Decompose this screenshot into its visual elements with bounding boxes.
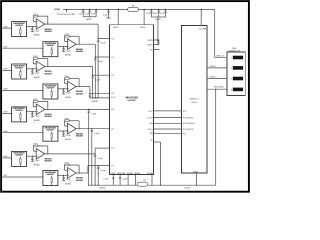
current-sense amp U7 MAX4080 block [12,151,27,166]
svg-text:DGND: DGND [193,171,199,173]
op-amp A5 buffer [36,104,45,115]
wire AVDD to ADC [117,9,119,11]
resistor internal gain resistor of U5 [19,112,21,114]
svg-text:0.1μF: 0.1μF [66,135,72,137]
svg-text:DVDD: DVDD [140,27,146,29]
op-amp A2 buffer [68,39,77,50]
wire AGND return for upper filter caps [90,97,110,99]
wire CH4 filter cap ground leg [88,114,90,185]
wire CH2 filter cap ground leg [92,80,94,98]
svg-text:U401: U401 [192,102,198,104]
capacitor C2a 0.1uF bypass at op-amp input [63,46,64,47]
wire feedback loop of op-amp A7 [38,145,48,147]
svg-text:0.1μF: 0.1μF [34,116,40,118]
svg-text:0.1μF: 0.1μF [98,61,104,63]
svg-text:0.1μF: 0.1μF [66,50,72,52]
wire CH5 input from left edge [2,132,43,134]
wire CH7 filter cap ground leg [97,170,99,185]
svg-text:RL0: RL0 [183,111,186,113]
current-sense amp U1 MAX4080 block [12,22,27,37]
resistor internal gain resistor of U1 [19,27,21,29]
svg-text:USB: USB [232,48,237,50]
resistor internal gain resistor of U2 [51,47,53,49]
wire CH1 input from left edge [2,47,43,49]
wire DGND pin of ADC to ground rail [151,174,153,185]
svg-text:CONNECTOR: CONNECTOR [228,51,241,53]
wire feedback loop of op-amp A2 [69,35,79,37]
inductor FB2 ferrite bead between AGND and DGND [137,182,147,186]
wire AGND pins of ADC to ground rail [127,174,129,185]
wire CH4 op-amp output to ADC input [45,108,110,110]
wire CH0 op-amp output to ADC input [45,23,98,25]
wire DVDD to ADC [143,9,145,11]
svg-text:USB D+: USB D+ [210,77,218,79]
svg-text:DGND: DGND [155,19,161,21]
wire CH0 filter cap ground leg [97,43,99,98]
resistor R601 feedback of op-amp [65,120,70,122]
wire U2 output to op-amp noninverting input [58,46,68,48]
wire CH1 filter cap ground leg [94,62,96,98]
svg-text:4.7μF: 4.7μF [103,178,109,180]
pin 1 pad of USB connector [233,56,243,60]
wire feedback loop of op-amp A8 [69,164,79,166]
capacitor C17 4.7uF on REF pin [112,174,114,177]
capacitor C6a 0.1uF bypass at op-amp input [63,130,64,131]
wire SPI bus SCLK [154,128,182,130]
svg-text:+5V USB: +5V USB [198,28,207,30]
svg-text:1: 1 [231,58,232,60]
wire CH3 filter cap ground leg [89,97,91,99]
wire USB D+ to connector [207,78,233,80]
svg-text:DOUT: DOUT [147,118,153,120]
pin 4 pad of USB connector [233,88,243,92]
resistor internal gain resistor of U7 [19,157,21,159]
wire CH6 op-amp output to ADC input [45,153,95,155]
ADC U10 MAX1168 block [110,25,154,175]
resistor R301 feedback of op-amp [33,58,38,60]
capacitor C4a 0.1uF bypass at op-amp input [63,88,64,89]
svg-text:0.1μF: 0.1μF [34,160,40,162]
svg-text:0.1μF: 0.1μF [91,114,97,116]
resistor internal gain resistor of U8 [51,176,53,178]
svg-text:USB D-: USB D- [210,66,217,68]
wire SPI bus DOUT [154,117,182,119]
resistor internal gain resistor of U3 [19,69,21,71]
svg-text:SCLK: SCLK [148,129,154,131]
svg-text:0.1μF: 0.1μF [66,179,72,181]
wire U5 output to op-amp noninverting input [27,111,37,113]
capacitor 0.1uF filter on CH4 ADC input [88,109,89,110]
svg-text:0.1μF: 0.1μF [98,158,104,160]
svg-text:2: 2 [231,68,232,70]
wire CH7 op-amp output to ADC input [76,172,88,174]
resistor R801 feedback of op-amp [65,164,70,166]
svg-text:+5V FROM LDO PWR: +5V FROM LDO PWR [57,14,76,16]
capacitor 0.1uF filter on CH0 ADC input [98,38,99,39]
capacitor C5a 0.1uF bypass at op-amp input [32,111,33,112]
capacitor 0.1uF filter on CH7 ADC input [98,165,99,166]
wire U6 output to op-amp noninverting input [58,130,68,132]
wire +5V to USB connector [214,10,216,58]
current-sense amp U3 MAX4080 block [12,64,27,79]
capacitor C1a 0.1uF bypass at op-amp input [32,26,33,27]
capacitor 0.1uF filter on CH5 ADC input [91,128,92,129]
USB connector J1 block [227,52,245,95]
resistor R501 feedback of op-amp [33,101,38,103]
svg-text:3: 3 [231,78,232,80]
op-amp A4 buffer [68,81,77,92]
pin 2 pad of USB connector [233,66,243,70]
svg-text:EOC: EOC [149,111,154,113]
svg-text:RL7/SPI SCK: RL7/SPI SCK [183,129,194,131]
capacitor 0.1uF filter on CH2 ADC input [92,75,93,76]
svg-text:0.1μF: 0.1μF [95,79,101,81]
border frame [1,1,249,192]
svg-text:MAX1168: MAX1168 [126,95,138,99]
wire SPI bus CS [154,133,182,135]
svg-text:DGND: DGND [184,188,190,190]
wire +5V analog supply rail [63,9,128,11]
wire SPI bus EOC [154,110,182,112]
wire USB D- to connector [207,67,233,69]
op-amp A1 buffer [36,19,45,30]
wire CH3 op-amp output to ADC input [76,86,90,88]
wire U3 output to op-amp noninverting input [27,68,37,70]
wire U7 output to op-amp noninverting input [27,155,37,157]
svg-text:0.1μF: 0.1μF [94,133,100,135]
wire CH2 op-amp output to ADC input [45,66,93,68]
svg-text:0.1μF: 0.1μF [101,170,107,172]
capacitor C15 10uF digital bypass [158,9,160,11]
wire feedback loop of op-amp A1 [38,15,48,17]
wire feedback loop of op-amp A4 [69,78,79,80]
capacitor C8a 0.1uF bypass at op-amp input [63,175,64,176]
svg-text:USB DGND: USB DGND [214,86,225,88]
svg-text:RL0/SPI SS0: RL0/SPI SS0 [183,118,193,120]
wire CH5 filter cap ground leg [91,133,93,185]
svg-text:DSPR: DSPR [147,40,153,42]
ground DGND bar for digital caps [151,16,165,18]
svg-text:DGND: DGND [147,173,153,175]
capacitor C11 0.1uF supply bypass [89,9,91,11]
wire feedback loop of op-amp A6 [69,120,79,122]
resistor R101 feedback of op-amp [33,15,38,17]
wire CH4 input from left edge [2,112,11,114]
svg-text:4: 4 [231,89,232,91]
svg-text:RL5/SPI MOSI: RL5/SPI MOSI [183,123,195,125]
capacitor C14 0.1uF digital bypass [151,9,153,11]
op-amp A7 buffer [36,149,45,160]
svg-text:0.1μF: 0.1μF [122,178,128,180]
wire SPI bus DIN [154,122,182,124]
pin 3 pad of USB connector [233,77,243,81]
wire U4 output to op-amp noninverting input [58,88,68,90]
wire USB DGND to connector [207,88,233,90]
wire feedback loop of op-amp A3 [38,58,48,60]
current-sense amp U4 MAX4080 block [43,84,58,99]
ground AGND bar for supply caps [83,16,96,18]
wire CH1 op-amp output to ADC input [76,43,95,45]
svg-text:0.1μF: 0.1μF [34,73,40,75]
resistor R701 feedback of op-amp [33,145,38,147]
capacitor C3a 0.1uF bypass at op-amp input [32,68,33,69]
wire AGND-DGND bottom ground rail [89,184,216,186]
svg-text:DSPX: DSPX [147,45,153,47]
op-amp A3 buffer [36,61,45,72]
USB interface U401 USBmicro block [182,25,208,173]
current-sense amp U8 MAX4080 block [43,171,58,186]
wire CH5 op-amp output to ADC input [76,128,110,130]
wire U1 output to op-amp noninverting input [27,25,37,27]
capacitor C13 0.1uF AVDD bypass [108,9,110,11]
svg-text:0.1μF: 0.1μF [34,30,40,32]
capacitor C16 0.1uF digital bypass [165,9,167,11]
capacitor C10 10uF supply bypass [82,9,84,11]
capacitor C18 0.1uF on REFCAP pin [119,174,121,177]
resistor R201 feedback of op-amp [65,35,70,37]
op-amp A6 buffer [68,123,77,134]
wire U401 DGND to ground rail [196,173,198,185]
svg-text:RL1: RL1 [183,134,186,136]
op-amp A8 buffer [68,168,77,179]
capacitor 0.1uF filter on CH1 ADC input [95,56,96,57]
capacitor C7a 0.1uF bypass at op-amp input [32,156,33,157]
current-sense amp U2 MAX4080 block [43,42,58,57]
wire CH2 input from left edge [2,70,11,72]
wire DSPR DSPX to DGND [157,17,159,45]
wire feedback loop of op-amp A5 [38,100,48,102]
wire U8 output to op-amp noninverting input [58,174,68,176]
svg-text:USB +5V: USB +5V [216,55,225,57]
wire +5V USB to rail [200,9,202,11]
resistor internal gain resistor of U4 [51,89,53,91]
current-sense amp U6 MAX4080 block [43,126,58,141]
current-sense amp U5 MAX4080 block [12,107,27,122]
wire CH7 input from left edge [2,176,43,178]
capacitor 0.1uF filter on CH3 ADC input [89,93,90,94]
wire CH6 filter cap ground leg [94,159,96,186]
capacitor C12 0.1uF supply bypass [95,9,97,11]
resistor R401 feedback of op-amp [65,78,70,80]
svg-text:0.1μF: 0.1μF [66,93,72,95]
wire CH3 input from left edge [2,90,43,92]
capacitor 0.1uF filter on CH6 ADC input [95,153,96,154]
wire CH0 input from left edge [2,27,11,29]
svg-text:0.1μF: 0.1μF [101,43,107,45]
inductor FB1 ferrite bead [128,7,139,11]
resistor internal gain resistor of U6 [51,132,53,134]
wire CH6 input from left edge [2,157,11,159]
